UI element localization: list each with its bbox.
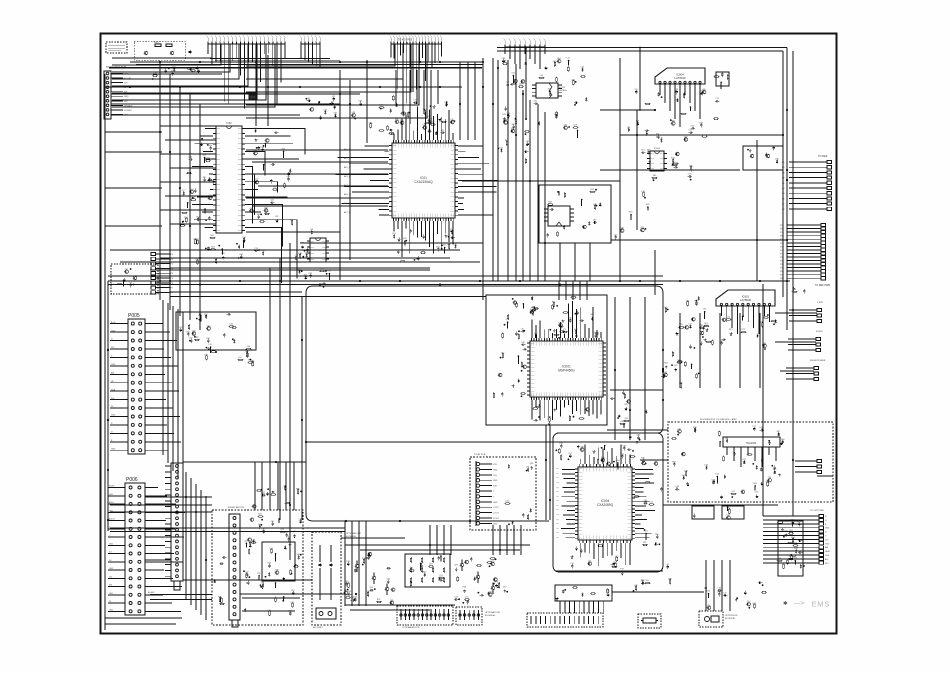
AV connector pin column <box>476 462 479 465</box>
svg-text:C43: C43 <box>755 492 758 494</box>
svg-text:R16: R16 <box>629 212 632 214</box>
wires entering big box top <box>558 281 560 300</box>
wire vertical x483 <box>482 58 484 300</box>
svg-text:TO AV PCB: TO AV PCB <box>474 453 486 456</box>
svg-text:C57: C57 <box>650 501 653 503</box>
svg-text:✱: ✱ <box>783 600 788 607</box>
connector CN3 tall strip <box>171 463 183 581</box>
svg-text:L20: L20 <box>209 344 212 346</box>
svg-text:C44: C44 <box>644 500 647 502</box>
wire vertical x367 <box>366 60 368 143</box>
bottom small box SIF <box>555 585 612 601</box>
svg-text:Q18: Q18 <box>684 471 688 473</box>
svg-text:P005: P005 <box>128 313 140 319</box>
wire vertical x256 <box>255 44 257 126</box>
svg-text:C97: C97 <box>271 521 274 523</box>
transistor staircase right Q604-Q606 <box>460 563 464 567</box>
svg-text:D51: D51 <box>441 130 444 132</box>
svg-text:R20: R20 <box>268 563 271 565</box>
bottom-left corner wires and text <box>105 617 182 619</box>
svg-text:D66: D66 <box>773 469 776 471</box>
svg-text:GND: GND <box>493 480 498 482</box>
IC woofer amp <box>723 437 780 447</box>
IC02 pin fanout wires right <box>245 129 305 155</box>
svg-text:R40: R40 <box>362 558 365 560</box>
svg-text:R90: R90 <box>671 120 674 122</box>
svg-text:D43: D43 <box>705 465 708 467</box>
svg-text:C96: C96 <box>333 113 336 115</box>
wire vertical x498 <box>497 60 499 281</box>
cluster in AV box <box>512 522 514 524</box>
wire right horiz y505 <box>663 504 778 506</box>
svg-text:SW: SW <box>109 585 112 587</box>
svg-text:D18: D18 <box>794 548 797 550</box>
svg-text:L79: L79 <box>450 119 453 121</box>
svg-text:C84: C84 <box>386 579 389 581</box>
svg-text:GND: GND <box>109 494 114 496</box>
svg-text:AFC: AFC <box>825 558 829 561</box>
svg-text:C67: C67 <box>691 125 694 127</box>
svg-text:D57: D57 <box>291 590 294 592</box>
svg-text:VIDEO: VIDEO <box>109 486 115 488</box>
IC004 left pin labels <box>562 468 575 470</box>
wire bottom horizontals y520-535 <box>341 537 405 539</box>
cluster around IC05 <box>642 151 644 154</box>
svg-text:R12: R12 <box>443 245 446 247</box>
svg-text:D30: D30 <box>257 214 260 216</box>
wire thick bus y68 <box>109 67 482 69</box>
svg-text:C18: C18 <box>254 248 257 250</box>
wires bottom center verticals <box>429 525 431 555</box>
svg-text:R77: R77 <box>620 569 623 571</box>
IC601 pin drops <box>720 310 722 316</box>
wire horizontal y390 right <box>610 389 663 391</box>
component grid right of IC604 <box>716 72 729 86</box>
svg-text:D49: D49 <box>346 561 349 563</box>
fusible hatched box <box>249 95 257 99</box>
wire verticals bottom right x700-760 <box>705 560 707 611</box>
svg-text:Q97: Q97 <box>622 445 626 447</box>
wire vertical x350 <box>349 80 351 260</box>
wire horiz y442 inside big box <box>306 441 663 443</box>
svg-text:AC INLET: AC INLET <box>313 626 324 629</box>
wire left vertical x105 <box>104 74 106 630</box>
wire bottom horizontal y560 left <box>145 559 171 561</box>
svg-text:R20: R20 <box>400 120 403 122</box>
svg-text:D93: D93 <box>641 580 644 582</box>
svg-text:R73: R73 <box>353 597 356 599</box>
svg-text:Q85: Q85 <box>519 84 523 86</box>
IC01 top pin wires <box>393 134 395 140</box>
cluster top-mid filler <box>511 129 515 133</box>
box bottom right dense <box>778 521 803 576</box>
wire bottom center horizontals <box>345 544 530 546</box>
svg-text:C49: C49 <box>718 588 721 590</box>
svg-text:FROM POWER: FROM POWER <box>810 360 826 362</box>
cluster left column mid-right <box>680 384 682 388</box>
svg-text:GND: GND <box>109 568 114 570</box>
svg-text:Q82: Q82 <box>637 435 641 437</box>
svg-text:R37: R37 <box>534 333 537 335</box>
wire top bus to left <box>130 61 483 63</box>
svg-text:R92: R92 <box>655 534 658 536</box>
svg-text:D83: D83 <box>254 150 257 152</box>
svg-text:EMS: EMS <box>812 600 831 609</box>
dashed box TO AV PCB <box>470 457 536 530</box>
svg-text:C71: C71 <box>674 164 677 166</box>
border frame <box>101 34 837 634</box>
svg-text:AC-E: AC-E <box>111 321 116 324</box>
dashed speaker box <box>668 422 833 502</box>
svg-text:R47: R47 <box>203 177 206 179</box>
svg-text:R64: R64 <box>239 254 242 256</box>
svg-text:C12: C12 <box>715 98 718 100</box>
svg-text:GND: GND <box>111 415 116 417</box>
cluster right of IC004 <box>645 533 647 535</box>
svg-text:C44: C44 <box>726 317 729 319</box>
cluster around IC02 right <box>265 213 269 215</box>
svg-text:C81: C81 <box>624 404 627 406</box>
big rounded shield box <box>306 286 663 521</box>
svg-text:R25: R25 <box>643 542 646 544</box>
junction dots on buses <box>159 61 161 63</box>
svg-text:R29: R29 <box>395 119 398 121</box>
svg-text:L-IN: L-IN <box>493 475 497 477</box>
IC004 QFP CXA2089Q <box>578 467 632 540</box>
svg-text:C17: C17 <box>688 324 691 326</box>
svg-text:C36: C36 <box>323 109 326 111</box>
svg-text:C93: C93 <box>703 309 706 311</box>
svg-text:L79: L79 <box>290 219 293 221</box>
cluster right of P005 row3 <box>239 359 243 361</box>
cluster left of IC001 <box>502 334 504 338</box>
svg-text:D57: D57 <box>641 150 644 152</box>
svg-text:TO DEF PWB: TO DEF PWB <box>815 284 830 287</box>
svg-text:L20: L20 <box>366 591 369 593</box>
svg-text:R48: R48 <box>463 586 466 588</box>
svg-text:C55: C55 <box>634 89 637 91</box>
cluster around IC02 left <box>191 199 195 201</box>
svg-text:D89: D89 <box>653 175 656 177</box>
connector in speaker box <box>817 459 822 462</box>
svg-text:L54: L54 <box>238 357 241 359</box>
svg-text:GND: GND <box>124 96 129 98</box>
wire from big box to IC004 box <box>607 429 663 431</box>
svg-text:D23: D23 <box>506 501 509 503</box>
svg-text:R-IN: R-IN <box>493 486 498 488</box>
connector SPK1 <box>817 308 822 311</box>
svg-text:Q49: Q49 <box>675 486 679 488</box>
wire lattice left horizontals <box>160 125 216 127</box>
connector CRT pins <box>819 515 824 518</box>
svg-text:Q34: Q34 <box>192 331 196 333</box>
cluster left of IC01 <box>352 113 356 117</box>
svg-text:L78: L78 <box>369 123 372 125</box>
IC02 DIP microcontroller <box>216 126 242 233</box>
wire vertical x523 <box>522 90 524 281</box>
svg-text:Q18: Q18 <box>370 587 374 589</box>
svg-text:L SPK: L SPK <box>817 302 824 304</box>
transistor in tuner box <box>133 276 137 280</box>
svg-text:WOOFER BOX 1.5 OHM SPK + AMP: WOOFER BOX 1.5 OHM SPK + AMP <box>700 418 737 421</box>
svg-text:GND: GND <box>825 528 830 530</box>
pin header comb J101 <box>208 43 285 45</box>
wire bottom horizontal y580 <box>183 579 312 581</box>
svg-text:FRONT AV PCB: FRONT AV PCB <box>228 506 244 509</box>
capacitor C801 <box>189 51 192 53</box>
svg-text:D21: D21 <box>636 121 639 123</box>
svg-text:L81: L81 <box>760 427 763 429</box>
dashed tuner box <box>111 264 158 294</box>
cluster around IC03 <box>507 83 510 85</box>
wire vertical right bus B <box>782 51 784 297</box>
dashed side-AV box <box>212 510 303 625</box>
svg-text:L23: L23 <box>547 419 550 421</box>
IC001 QFP MSP4450G <box>530 341 603 397</box>
svg-text:Q12: Q12 <box>731 491 735 493</box>
cluster in side-AV box <box>283 577 285 579</box>
svg-text:D13: D13 <box>715 474 718 476</box>
wire bottom horizontal y594 <box>240 593 345 595</box>
svg-text:Q30: Q30 <box>580 447 584 449</box>
svg-text:C72: C72 <box>465 597 468 599</box>
box B1 with transistors <box>743 146 783 170</box>
svg-text:C88: C88 <box>352 112 355 114</box>
svg-text:R60: R60 <box>664 362 667 364</box>
svg-text:L75: L75 <box>563 329 566 331</box>
svg-text:C27: C27 <box>301 243 304 245</box>
wire horizontal y110 left of IC604 <box>600 109 655 111</box>
svg-text:D64: D64 <box>689 166 692 168</box>
wire drop at x640 <box>639 48 641 111</box>
wire mid vertical x270 <box>269 268 271 510</box>
svg-text:R71: R71 <box>620 453 623 455</box>
svg-text:GND: GND <box>825 555 830 557</box>
svg-text:Q98: Q98 <box>287 176 291 178</box>
IC01 right pin wires <box>458 145 483 147</box>
svg-text:R-OUT: R-OUT <box>493 518 500 520</box>
wire vertical x180 <box>179 87 181 316</box>
svg-text:L91: L91 <box>521 328 524 330</box>
cluster mid bottom right <box>635 586 637 590</box>
wire vertical x538 <box>537 104 539 281</box>
svg-text:Q79: Q79 <box>491 561 495 563</box>
wire left vertical x108b <box>107 281 109 531</box>
svg-text:Q78: Q78 <box>573 125 577 127</box>
svg-text:D68: D68 <box>775 159 778 161</box>
svg-text:D50: D50 <box>291 602 294 604</box>
svg-text:R47: R47 <box>195 239 198 241</box>
pin header comb J103 <box>391 43 441 45</box>
svg-text:L98: L98 <box>514 119 517 121</box>
cluster mid-right filler x620 <box>641 228 645 232</box>
svg-text:L55: L55 <box>125 269 128 271</box>
wire bottom verticals left-mid <box>254 462 256 510</box>
cluster below IC01 <box>451 236 453 239</box>
cluster right of P005 row2 <box>195 339 199 341</box>
wire mid horizontals y250-276 <box>110 249 460 251</box>
svg-text:Q20: Q20 <box>641 227 645 229</box>
svg-text:C78: C78 <box>688 174 691 176</box>
svg-text:R72: R72 <box>742 329 745 331</box>
wires side-AV lower <box>242 597 300 599</box>
svg-text:Q54: Q54 <box>206 158 210 160</box>
svg-text:R94: R94 <box>184 217 187 219</box>
svg-text:R93: R93 <box>672 461 675 463</box>
svg-text:LA7805: LA7805 <box>559 89 567 92</box>
svg-text:C72: C72 <box>752 426 755 428</box>
IC01 left pin wires <box>364 145 388 147</box>
rounded box around IC004 <box>553 433 663 572</box>
svg-text:—>: —> <box>794 600 805 607</box>
svg-text:C74: C74 <box>614 234 617 236</box>
wire bundle P006 right verticals <box>185 472 187 600</box>
capacitor C802 <box>196 67 199 69</box>
svg-text:L49: L49 <box>521 342 524 344</box>
wire IC02-IC01 links <box>246 149 388 151</box>
svg-text:GND: GND <box>111 448 116 450</box>
svg-text:C56: C56 <box>686 300 689 302</box>
svg-text:EU MODEL: EU MODEL <box>485 615 496 617</box>
connector P801 TO POWER <box>104 71 111 119</box>
svg-text:L29: L29 <box>506 82 509 84</box>
svg-text:R SPK: R SPK <box>816 331 823 333</box>
svg-text:R23: R23 <box>211 246 214 248</box>
svg-text:GND: GND <box>109 610 114 612</box>
svg-text:Q60: Q60 <box>261 582 265 584</box>
svg-text:GND: GND <box>493 502 498 504</box>
svg-text:Q90: Q90 <box>305 252 309 254</box>
svg-text:D78: D78 <box>298 253 301 255</box>
svg-text:R10: R10 <box>221 253 224 255</box>
svg-text:Q42: Q42 <box>620 228 624 230</box>
svg-text:TO SPEAKER PCB: TO SPEAKER PCB <box>402 626 420 629</box>
wire vertical x530 <box>529 100 531 281</box>
connector strip TUNER <box>151 252 156 255</box>
svg-text:C62: C62 <box>511 73 514 75</box>
resistor R801 <box>155 44 161 46</box>
IC08 DIP8 near x315 <box>310 238 326 262</box>
svg-text:D17: D17 <box>646 580 649 582</box>
svg-text:Q91: Q91 <box>251 361 255 363</box>
svg-text:R33: R33 <box>699 122 702 124</box>
wire right verticals mid <box>679 313 681 388</box>
svg-text:R93: R93 <box>258 514 261 516</box>
svg-text:IC605: IC605 <box>654 148 661 150</box>
svg-text:D59: D59 <box>647 150 650 152</box>
svg-text:Q23: Q23 <box>752 603 756 605</box>
small boxes below speaker box <box>692 506 714 519</box>
wire horiz y104 <box>111 103 340 105</box>
svg-text:TO KEY PCB: TO KEY PCB <box>398 39 413 42</box>
IC001 bottom fan wires <box>531 400 533 420</box>
cluster left of side-AV strip <box>220 562 222 565</box>
svg-text:Q22: Q22 <box>270 200 274 202</box>
svg-text:C47: C47 <box>747 601 750 603</box>
svg-text:GND: GND <box>111 364 116 366</box>
IC001 top fan wires <box>531 319 533 338</box>
svg-text:R75: R75 <box>729 329 732 331</box>
svg-text:R23: R23 <box>671 157 674 159</box>
bottom dashed connector D2 <box>456 607 482 625</box>
svg-text:Q61: Q61 <box>675 89 679 91</box>
wire long horiz y284.5 <box>108 284 663 286</box>
svg-text:L85: L85 <box>593 220 596 222</box>
wire verticals below IC07 box <box>559 243 561 281</box>
svg-text:EU MODEL: EU MODEL <box>725 618 736 620</box>
svg-text:LA78040: LA78040 <box>740 298 752 302</box>
wire staircase comb3 to IC02 <box>246 44 395 66</box>
svg-text:Q65: Q65 <box>674 365 678 367</box>
svg-text:L42: L42 <box>723 592 726 594</box>
svg-text:D76: D76 <box>261 147 264 149</box>
SIF pin drops <box>559 601 561 613</box>
wire bundle down from P005 region <box>162 300 164 455</box>
svg-text:R42: R42 <box>548 88 551 90</box>
svg-text:C17: C17 <box>501 352 504 354</box>
svg-text:R71: R71 <box>552 301 555 303</box>
svg-text:C26: C26 <box>206 338 209 340</box>
cluster inside speaker box <box>767 482 769 486</box>
svg-text:C26: C26 <box>553 61 556 63</box>
svg-text:Q42: Q42 <box>503 586 507 588</box>
wire vertical x620 long <box>619 58 621 280</box>
dashed option box TOP-LEFT <box>106 42 127 53</box>
svg-text:C27: C27 <box>255 179 258 181</box>
svg-text:Q16: Q16 <box>245 351 249 353</box>
svg-text:Q95: Q95 <box>664 307 668 309</box>
svg-text:C38: C38 <box>299 518 302 520</box>
svg-text:C48: C48 <box>768 477 771 479</box>
svg-text:P006: P006 <box>126 477 138 483</box>
svg-text:D86: D86 <box>297 554 300 556</box>
wire mid vertical x280 <box>279 258 281 520</box>
wire top double bus B <box>497 50 783 52</box>
cluster above IC01 <box>400 121 404 125</box>
svg-text:OPTIONAL FOR: OPTIONAL FOR <box>485 611 500 614</box>
IC004 right pin wires <box>635 468 653 470</box>
svg-text:L32: L32 <box>559 443 562 445</box>
wire right region verticals <box>792 51 794 516</box>
cluster around IC08 <box>322 283 324 286</box>
resistor R802 <box>166 44 172 46</box>
CN3 left stubs <box>165 465 171 467</box>
svg-text:ABL: ABL <box>111 372 115 375</box>
svg-text:IC02: IC02 <box>226 122 232 125</box>
svg-text:L86: L86 <box>196 259 199 261</box>
svg-text:D21: D21 <box>275 216 278 218</box>
svg-text:D58: D58 <box>693 427 696 429</box>
wire verticals comb3 to IC01 <box>395 70 397 104</box>
cluster right of P005 row1 <box>232 327 236 329</box>
svg-text:L99: L99 <box>204 354 207 356</box>
svg-text:L87: L87 <box>682 475 685 477</box>
cluster below IC601 <box>722 338 724 341</box>
wire verticals big box right part <box>614 297 616 440</box>
svg-text:C75: C75 <box>413 100 416 102</box>
svg-text:C13: C13 <box>179 327 182 329</box>
svg-text:AUD-L: AUD-L <box>109 501 114 504</box>
svg-text:GND: GND <box>109 593 114 595</box>
wire right horizontals to SPK conns <box>775 312 817 314</box>
IC604 LA78040 vertical deflection <box>655 68 705 84</box>
wire horizontal y592 right <box>612 591 704 593</box>
svg-text:L43: L43 <box>129 282 132 284</box>
svg-text:D43: D43 <box>707 591 710 593</box>
wire horizontal y135 right span <box>620 134 783 136</box>
wire short horizontals y58-65 <box>210 58 330 60</box>
svg-text:C15: C15 <box>570 563 573 565</box>
